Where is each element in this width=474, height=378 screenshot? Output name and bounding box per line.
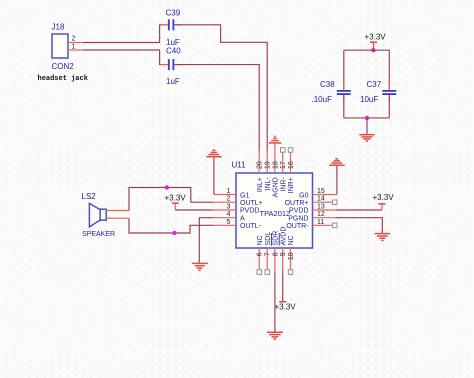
- svg-text:C38: C38: [320, 80, 335, 89]
- pin 7 SDL: [265, 232, 272, 275]
- pin 19 INL-: [265, 150, 272, 190]
- pin 8 SDR: [272, 231, 279, 271]
- ground at pin4: [192, 263, 208, 270]
- power +3.3V at pin13: [373, 193, 395, 210]
- svg-text:16: 16: [288, 161, 295, 169]
- svg-text:PVDD: PVDD: [240, 208, 259, 215]
- pin 4 A: [213, 211, 245, 222]
- svg-text:2: 2: [227, 196, 231, 203]
- svg-text:6: 6: [257, 252, 264, 256]
- power +3.3V below pin9 inverted: [275, 302, 297, 312]
- wire pin15 to ground: [336, 166, 338, 195]
- pin leads of C40: [161, 64, 182, 66]
- wire J18 pin1 to C40: [83, 50, 168, 65]
- svg-text:11: 11: [317, 219, 324, 226]
- pin 12 PGND: [288, 211, 336, 222]
- svg-text:18: 18: [272, 161, 279, 169]
- svg-text:+3.3V: +3.3V: [365, 33, 387, 42]
- capacitor C37 plates: [382, 91, 396, 94]
- wire C38 branch lower: [343, 95, 345, 118]
- pin 10 NC: [288, 235, 295, 274]
- wire C38 branch upper: [343, 50, 345, 90]
- svg-text:9: 9: [280, 252, 287, 256]
- svg-text:AVDD: AVDD: [280, 227, 287, 246]
- wire C37 branch lower: [388, 95, 390, 118]
- ground at pin8: [267, 332, 283, 339]
- svg-text:U11: U11: [232, 161, 247, 170]
- svg-text:4: 4: [227, 211, 231, 218]
- svg-text:7: 7: [265, 252, 272, 256]
- capacitor C38 plates: [337, 91, 351, 94]
- wire C39 to IC pin19 INL-: [175, 25, 268, 150]
- svg-text:+3.3V: +3.3V: [275, 303, 297, 312]
- pin 9 AVDD: [280, 227, 287, 271]
- wire pin2 to speaker top: [129, 188, 213, 211]
- svg-text:CON2: CON2: [52, 62, 75, 71]
- pin 6 NC: [257, 235, 264, 274]
- pin 20 INL+: [257, 150, 264, 192]
- svg-text:PVDD: PVDD: [289, 208, 308, 215]
- ground at pin18 AGND: [269, 136, 282, 143]
- svg-text:LS2: LS2: [82, 192, 97, 201]
- pin 16 INR+: [288, 148, 295, 194]
- svg-text:INL+: INL+: [257, 177, 264, 192]
- svg-text:AGND: AGND: [273, 177, 280, 197]
- wire pin8 to ground: [274, 271, 276, 332]
- ground at pin12 PGND: [375, 234, 391, 241]
- pin 2 OUTL+: [213, 196, 263, 207]
- capacitor C39 plates: [169, 19, 174, 30]
- wire ground stub below rail: [366, 118, 368, 134]
- pin leads of C37: [388, 83, 390, 102]
- pin 14 OUTR+: [285, 196, 337, 207]
- op-amp U11 body: [236, 173, 313, 248]
- junction bottom rail: [365, 116, 369, 120]
- pin 5 OUTL-: [213, 219, 262, 230]
- svg-text:1uF: 1uF: [166, 77, 180, 86]
- pin 17 INR-: [280, 148, 287, 192]
- svg-text:OUTL-: OUTL-: [240, 223, 262, 230]
- svg-text:19: 19: [265, 161, 272, 169]
- junction top rail: [371, 48, 375, 52]
- svg-text:3: 3: [227, 204, 231, 211]
- wire C37 branch upper: [388, 50, 390, 90]
- wire pin3 to +3.3V: [175, 209, 213, 211]
- svg-text:8: 8: [272, 252, 279, 256]
- wire pin5 to speaker bottom: [129, 218, 213, 233]
- svg-text:+3.3V: +3.3V: [165, 194, 187, 203]
- svg-text:PGND: PGND: [288, 216, 308, 223]
- svg-text:12: 12: [317, 211, 325, 218]
- pin 1 of J18: [68, 44, 83, 51]
- pin leads of C38: [343, 83, 345, 102]
- pin 15 G0: [299, 188, 337, 199]
- pin 3 PVDD: [213, 204, 259, 215]
- svg-text:OUTR+: OUTR+: [285, 200, 309, 207]
- pin leads of C39: [161, 24, 182, 26]
- wire pin4 to ground: [199, 218, 213, 263]
- svg-text:20: 20: [257, 161, 264, 169]
- svg-text:NC: NC: [288, 235, 295, 245]
- svg-text:A: A: [240, 216, 245, 223]
- pin 18 AGND: [272, 143, 279, 197]
- wire bottom rail: [344, 117, 390, 119]
- svg-text:J18: J18: [52, 23, 65, 32]
- svg-text:SDL: SDL: [265, 232, 272, 246]
- pin + of LS2: [106, 210, 129, 212]
- connector J18 body: [52, 34, 68, 58]
- svg-text:1: 1: [227, 188, 231, 195]
- svg-text:SDR: SDR: [273, 231, 280, 246]
- svg-text:17: 17: [280, 161, 287, 169]
- svg-text:14: 14: [317, 196, 325, 203]
- svg-text:C39: C39: [166, 9, 181, 18]
- junction speaker top wire: [165, 185, 169, 189]
- wire pin1 to ground: [213, 157, 215, 195]
- wire J18 pin2 to C39: [83, 25, 168, 43]
- svg-text:2: 2: [72, 36, 76, 43]
- pin 1 G1: [214, 188, 250, 199]
- svg-text:SPEAKER: SPEAKER: [82, 231, 115, 238]
- svg-text:G1: G1: [240, 192, 249, 199]
- wire C40 to IC pin20 INL+: [175, 65, 260, 150]
- svg-text:10: 10: [288, 252, 295, 260]
- svg-text:C40: C40: [166, 47, 181, 56]
- svg-text:G0: G0: [299, 192, 308, 199]
- svg-text:1: 1: [72, 44, 76, 51]
- power +3.3V top rail symbol: [370, 42, 377, 50]
- wire pin12 to ground: [336, 218, 382, 234]
- power +3.3V at pin3: [165, 194, 187, 211]
- ground at pin15 G0: [329, 159, 345, 165]
- svg-text:headset jack: headset jack: [38, 75, 88, 83]
- junction speaker bottom wire: [172, 231, 176, 235]
- speaker LS2 symbol: [89, 203, 106, 227]
- capacitor C40 plates: [169, 59, 174, 70]
- svg-text:+3.3V: +3.3V: [373, 193, 395, 202]
- svg-text:INL-: INL-: [265, 177, 272, 191]
- wire pin13 to +3.3V: [336, 209, 382, 211]
- ground below C37 C38 rail: [359, 135, 374, 141]
- svg-text:INR-: INR-: [280, 177, 287, 192]
- svg-text:TPA2012: TPA2012: [260, 209, 291, 218]
- svg-text:15: 15: [317, 188, 325, 195]
- svg-text:INR+: INR+: [288, 177, 295, 193]
- pin 13 PVDD: [289, 204, 336, 215]
- svg-text:13: 13: [317, 204, 325, 211]
- wire pin9 to +3.3V: [282, 271, 284, 302]
- svg-text:10uF: 10uF: [360, 95, 378, 104]
- svg-text:NC: NC: [257, 235, 264, 245]
- svg-text:5: 5: [227, 219, 231, 226]
- svg-text:OUTL+: OUTL+: [240, 200, 263, 207]
- pin 2 of J18: [68, 36, 83, 43]
- svg-text:OUTR-: OUTR-: [286, 223, 309, 230]
- pin 11 OUTR-: [286, 219, 337, 230]
- ground at pin1 G1: [206, 150, 222, 156]
- svg-text:.10uF: .10uF: [312, 95, 333, 104]
- pin - of LS2: [106, 217, 129, 219]
- svg-text:C37: C37: [367, 80, 382, 89]
- wire top rail: [344, 49, 390, 51]
